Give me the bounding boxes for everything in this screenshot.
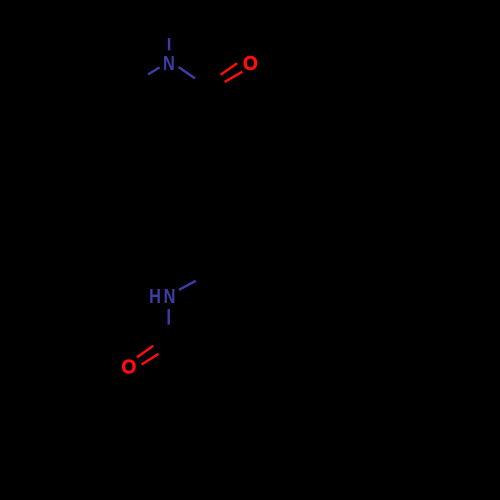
atom N1 (dimethylamino nitrogen): [163, 53, 175, 75]
bond C=O2 inner line (O half): [137, 346, 153, 358]
bond CH3-N1 (left methyl, N half): [148, 67, 160, 74]
svg-text:N: N: [163, 53, 175, 75]
bond C=O2 main line (O half): [142, 354, 159, 365]
svg-text:N: N: [164, 286, 176, 308]
bond C=O1 inner line (O half): [221, 63, 238, 74]
atom N2 amide H label: [149, 286, 161, 308]
svg-text:O: O: [243, 53, 258, 75]
bond N1-CH3 (vertical methyl, N half): [168, 38, 170, 50]
atom N2 (amide nitrogen): [164, 286, 176, 308]
bond N1-C(=O) (amide bond, N half): [179, 67, 195, 78]
bond N2-C(=O) (vertical, N half): [167, 309, 169, 325]
svg-text:H: H: [149, 286, 161, 308]
bond C=O1 main line (O half): [225, 72, 243, 82]
atom O1 (top carbonyl oxygen): [243, 53, 258, 75]
atom O2 (bottom carbonyl oxygen): [122, 356, 137, 378]
svg-text:O: O: [122, 356, 137, 378]
bond N2-CH (to ring CH, N half): [179, 281, 196, 290]
